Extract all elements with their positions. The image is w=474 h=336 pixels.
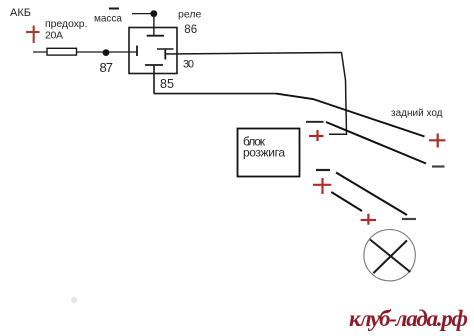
svg-text:20А: 20А <box>45 29 63 41</box>
svg-text:задний ход: задний ход <box>391 108 443 119</box>
svg-text:предохр.: предохр. <box>45 18 88 30</box>
svg-text:клуб-лада.рф: клуб-лада.рф <box>349 306 468 331</box>
svg-text:85: 85 <box>160 77 174 91</box>
svg-text:30: 30 <box>183 59 194 71</box>
svg-text:масса: масса <box>94 13 122 24</box>
svg-text:реле: реле <box>178 9 201 21</box>
svg-text:86: 86 <box>184 24 197 36</box>
svg-text:АКБ: АКБ <box>10 7 31 19</box>
svg-text:87: 87 <box>100 60 114 75</box>
svg-text:розжига: розжига <box>243 146 285 160</box>
